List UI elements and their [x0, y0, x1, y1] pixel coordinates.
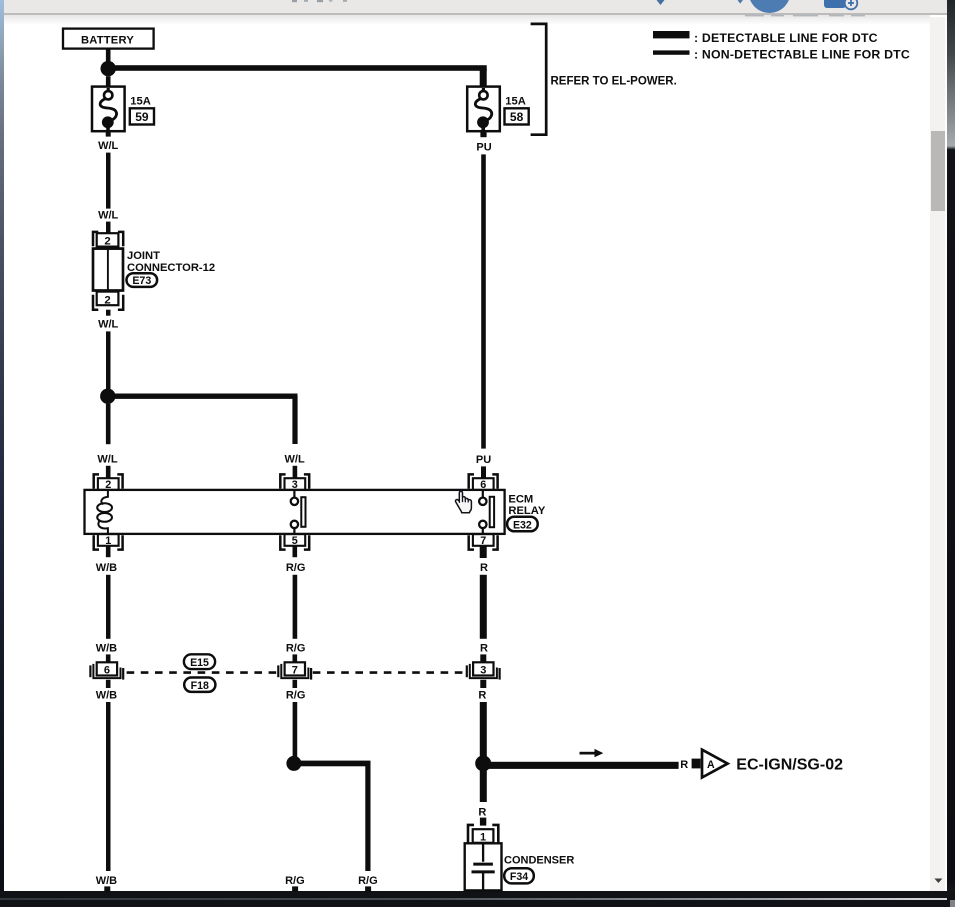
svg-text:2: 2	[105, 479, 111, 491]
wire stub pin3	[293, 466, 298, 479]
dashed harness line segment 1	[127, 671, 278, 674]
wire W/L segment 1	[106, 153, 111, 209]
svg-text:W/B: W/B	[96, 562, 117, 574]
scrollbar down arrow	[930, 874, 946, 888]
wire into joint connector	[106, 222, 111, 234]
pin 3	[280, 474, 309, 491]
harness splice connector 3	[467, 662, 500, 679]
pin 5	[280, 534, 309, 557]
dashed harness line segment 2	[313, 671, 467, 674]
scrollbar track	[930, 17, 945, 891]
wire stub pin6	[481, 466, 486, 478]
wire fuse 58 stub	[480, 131, 486, 137]
svg-text:W/L: W/L	[285, 453, 305, 465]
wire R/G page-edge stub	[292, 886, 298, 891]
junction node D (R splice)	[475, 755, 491, 771]
svg-text:BATTERY: BATTERY	[81, 35, 134, 47]
svg-text:RELAY: RELAY	[508, 505, 545, 517]
wire junction into fuse 59	[106, 76, 111, 87]
svg-text:3: 3	[292, 479, 298, 491]
condenser pin 1	[468, 825, 498, 844]
svg-text:1: 1	[105, 535, 111, 547]
legend: detectable line sample	[653, 31, 878, 45]
svg-text:1: 1	[480, 832, 486, 844]
legend: non-detectable line sample	[653, 48, 910, 62]
wire battery to junction	[106, 49, 111, 62]
svg-text:59: 59	[135, 110, 149, 124]
svg-text:R: R	[480, 562, 488, 574]
flow arrow	[580, 749, 604, 757]
wire W/B page-edge stub	[104, 886, 110, 891]
svg-text:E32: E32	[513, 519, 532, 531]
wire below joint connector	[106, 310, 111, 316]
svg-text:15A: 15A	[130, 95, 151, 107]
svg-text:6: 6	[480, 479, 486, 491]
refer to el-power bracket	[531, 24, 547, 135]
mouse cursor	[455, 491, 471, 513]
wire stub condenser	[480, 818, 486, 826]
svg-text:W/B: W/B	[96, 875, 117, 887]
pin 6	[469, 474, 498, 491]
wire stub into splice 6	[106, 654, 111, 662]
svg-text:PU: PU	[476, 142, 491, 154]
svg-text:R: R	[680, 759, 688, 771]
svg-text:E15: E15	[190, 657, 209, 669]
scrollbar thumb	[931, 131, 945, 211]
node marker square	[692, 759, 701, 769]
wire stub below splice 3	[480, 680, 486, 688]
fuse 15A 58	[467, 87, 500, 132]
wire W/L segment 2	[106, 331, 111, 389]
wire W/B segment	[106, 575, 111, 639]
svg-text:JOINT: JOINT	[127, 250, 160, 262]
svg-text:7: 7	[480, 535, 486, 547]
svg-text:W/L: W/L	[98, 319, 118, 331]
svg-text:A: A	[707, 759, 715, 771]
svg-text:R/G: R/G	[358, 875, 378, 887]
wire branch bus to middle	[108, 394, 298, 445]
svg-text:W/L: W/L	[98, 209, 118, 221]
svg-text:R: R	[478, 690, 486, 702]
wire left W/L down to relay	[106, 404, 111, 445]
svg-text:CONDENSER: CONDENSER	[504, 854, 574, 866]
wire stub pin2	[106, 466, 111, 479]
wire PU long segment	[481, 154, 486, 448]
ECM relay E32 body	[85, 490, 505, 534]
wire stub into splice 7	[293, 654, 298, 662]
fuse 15A 59	[92, 87, 125, 132]
harness splice connector 7	[278, 662, 311, 679]
junction node C (R/G splice)	[286, 756, 301, 771]
svg-text:R/G: R/G	[286, 562, 306, 574]
svg-text:5: 5	[292, 535, 298, 547]
svg-text:W/B: W/B	[96, 690, 117, 702]
junction node A (battery splice)	[101, 61, 116, 76]
svg-text:: DETECTABLE LINE FOR DTC: : DETECTABLE LINE FOR DTC	[694, 31, 878, 45]
relay name ECM RELAY	[508, 494, 545, 517]
window right edge strip	[947, 0, 955, 907]
svg-text:7: 7	[292, 664, 298, 676]
svg-text:R/G: R/G	[286, 642, 306, 654]
svg-text:ECM: ECM	[508, 494, 533, 506]
condenser F34 body	[465, 843, 502, 890]
relay contact (pins 6-7)	[479, 491, 494, 534]
fuse number 59	[130, 108, 154, 124]
wire branch R/G to right	[294, 761, 371, 871]
fuse number 58	[505, 108, 529, 124]
connector designator F18	[184, 678, 215, 692]
relay coil	[97, 491, 112, 534]
svg-text:R/G: R/G	[285, 875, 305, 887]
svg-text:E73: E73	[132, 275, 151, 287]
svg-text:R: R	[480, 643, 488, 655]
svg-text:: NON-DETECTABLE LINE FOR DTC: : NON-DETECTABLE LINE FOR DTC	[694, 48, 910, 62]
wire stub into splice 3	[480, 654, 486, 662]
wire R/G down to junction	[293, 702, 298, 759]
toolbar icon fragments	[0, 0, 955, 18]
svg-text:REFER TO EL-POWER.: REFER TO EL-POWER.	[551, 76, 677, 88]
wire top bus to right fuse	[108, 65, 487, 86]
svg-text:W/L: W/L	[98, 140, 118, 152]
svg-text:PU: PU	[476, 454, 491, 466]
wire R thick segment	[480, 575, 487, 639]
connector designator E15	[184, 654, 215, 669]
svg-text:R/G: R/G	[286, 690, 306, 702]
svg-text:3: 3	[480, 664, 486, 676]
wire stub below splice 7	[293, 680, 298, 688]
wire R bus to EC-IGN	[483, 762, 678, 769]
window left edge strip	[0, 0, 4, 907]
pin 7	[469, 534, 498, 558]
wire R thick down to junction	[480, 702, 487, 759]
svg-text:15A: 15A	[505, 95, 526, 107]
off-page connector A (triangle)	[702, 750, 728, 778]
junction node B (W/L splice)	[100, 389, 115, 404]
svg-text:58: 58	[510, 110, 524, 124]
svg-text:2: 2	[104, 236, 110, 248]
wire W/B bottom segment	[106, 702, 111, 871]
svg-text:EC-IGN/SG-02: EC-IGN/SG-02	[736, 757, 843, 774]
harness splice connector 6	[90, 662, 123, 679]
joint connector-12 E73	[93, 232, 215, 310]
relay contact (pins 3-5)	[291, 491, 306, 534]
battery B1	[63, 29, 154, 49]
bottom window band	[0, 891, 955, 907]
pin 1	[94, 534, 123, 557]
svg-text:W/B: W/B	[96, 642, 117, 654]
wire stub below splice 6	[106, 680, 111, 688]
svg-text:W/L: W/L	[97, 453, 117, 465]
pin 2	[94, 474, 123, 491]
svg-text:2: 2	[104, 294, 110, 306]
wire R down to condenser	[480, 771, 487, 803]
wire R/G branch page-edge stub	[365, 886, 371, 891]
wire R/G segment	[293, 575, 298, 639]
wire fuse 59 stub	[106, 131, 111, 136]
condenser designator F34	[504, 868, 534, 883]
browser toolbar remnant	[4, 0, 947, 15]
svg-text:F18: F18	[191, 680, 209, 692]
svg-text:6: 6	[104, 664, 110, 676]
toolbar shadow on page	[4, 15, 930, 25]
svg-text:R: R	[478, 806, 486, 818]
relay designator E32	[507, 517, 538, 532]
svg-text:F34: F34	[510, 871, 528, 883]
